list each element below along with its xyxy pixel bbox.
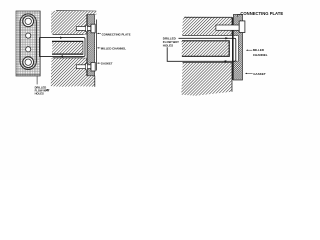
channel cut (white) [49,34,87,57]
connecting plate (left figure, crosshatched) [87,15,95,76]
svg-text:HOLES: HOLES [163,43,173,47]
channel top edge [183,34,233,36]
gasket line (right figure) [232,17,234,80]
island between drilled holes (right figure) [181,41,229,57]
section block (left figure, ragged left/bottom edge) [51,10,97,87]
block top edge [184,16,232,18]
channel top edge [53,33,87,35]
top bolt (left figure) [76,24,95,33]
plate bottom edge double line [16,74,40,76]
block top edge [56,9,96,12]
label: MILLED CHANNEL (right figure) [246,48,268,57]
label: GASKET (right figure) [245,72,266,76]
bolt (right figure) [216,21,245,33]
bottom port hole inner [25,59,31,65]
flow loop (right figure) [167,38,236,61]
channel bottom edge [183,62,233,64]
flow arrow left (bottom line, right figure) [223,60,226,62]
milled channel groove (right figure) [233,36,238,62]
svg-text:HOLES: HOLES [35,91,44,95]
leader: CONNECTING PLATE (left) [97,33,131,37]
flow arrow right (top line) [60,37,63,39]
small drilled hole B [26,47,31,52]
svg-text:GASKET: GASKET [101,62,113,66]
svg-text:CONNECTING PLATE: CONNECTING PLATE [240,11,283,16]
small drilled hole A [26,33,31,38]
svg-text:CHANNEL: CHANNEL [253,53,268,57]
milled channel groove (white, in plate face) [83,34,87,57]
top port hole outer [23,16,34,27]
block right edge below plate [94,76,96,87]
block right edge [231,17,233,92]
leader: MILLED CHANNEL (left) [97,46,126,50]
svg-text:GASKET: GASKET [253,72,266,76]
front-view plate (hatched face) [16,11,40,76]
svg-text:MILLED CHANNEL: MILLED CHANNEL [101,46,127,50]
gasket line [86,15,88,76]
channel bottom edge [53,57,87,59]
flow arrow left (bottom line) [60,55,63,57]
label: DRILLED FLOW WAY HOLES (right figure) [163,36,179,47]
channel cut (white, right figure) [178,35,232,62]
svg-text:MILLED: MILLED [253,48,265,52]
connecting plate (right figure) [233,15,242,81]
top port hole inner [25,18,31,24]
label: CONNECTING PLATE (right figure) [238,11,284,17]
flow loop (left figure) [40,38,86,57]
leader: GASKET (left) [97,62,113,66]
section block (right figure, ragged left/bottom edge) [181,17,232,96]
bottom port hole outer [23,57,34,68]
island between drilled holes [52,41,84,54]
svg-text:CONNECTING PLATE: CONNECTING PLATE [102,33,131,37]
bottom bolt (left figure) [76,62,95,71]
label: DRILLED FLOW WAY HOLES (left figure) [35,76,50,95]
obround slot outline [20,14,36,70]
flow arrow right (top line, right figure) [225,37,228,39]
